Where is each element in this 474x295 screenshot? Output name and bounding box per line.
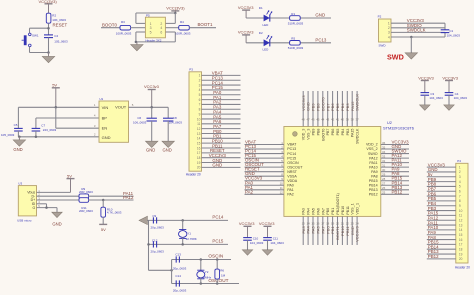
wire <box>245 189 284 191</box>
svg-text:PB13: PB13 <box>369 188 378 192</box>
svg-text:Header 20: Header 20 <box>455 265 470 269</box>
wire <box>267 240 269 250</box>
svg-text:NRST: NRST <box>287 170 298 174</box>
svg-text:3: 3 <box>388 31 390 35</box>
svg-text:PB10: PB10 <box>341 206 345 215</box>
resistor R10 <box>101 207 106 217</box>
svg-text:29: 29 <box>382 173 386 177</box>
power VCC3V3 led1 <box>238 5 254 18</box>
wire <box>149 269 172 271</box>
junction <box>47 27 50 30</box>
svg-text:PA3: PA3 <box>302 208 306 215</box>
wire <box>135 32 137 42</box>
svg-text:10: 10 <box>280 182 284 186</box>
svg-text:D2: D2 <box>259 31 263 35</box>
svg-text:PC14: PC14 <box>212 215 224 220</box>
svg-text:PB3: PB3 <box>346 129 350 136</box>
svg-text:GND: GND <box>13 147 22 152</box>
svg-text:USB micro: USB micro <box>17 219 32 223</box>
crystal Y1 32.768K <box>179 230 187 239</box>
wire <box>245 180 284 182</box>
wire <box>245 144 284 146</box>
ground crystals <box>139 216 147 224</box>
capacitor C8 <box>163 118 173 121</box>
svg-text:10: 10 <box>197 117 201 121</box>
svg-text:VCC3V3: VCC3V3 <box>418 76 434 81</box>
svg-text:PA4: PA4 <box>307 208 311 215</box>
wire <box>381 162 409 164</box>
svg-text:STM32F103C8T6: STM32F103C8T6 <box>383 125 414 130</box>
wire <box>37 203 47 205</box>
svg-text:PB12: PB12 <box>369 193 378 197</box>
wire <box>302 91 304 127</box>
wire <box>35 118 37 128</box>
svg-text:1: 1 <box>459 165 461 169</box>
svg-text:PB5: PB5 <box>336 129 340 136</box>
wire <box>427 239 456 241</box>
connector P5 header 3X2 <box>145 17 165 38</box>
svg-text:30: 30 <box>382 168 386 172</box>
svg-text:43: 43 <box>326 117 330 121</box>
wire <box>245 153 284 155</box>
junction <box>410 36 413 39</box>
wire <box>317 91 319 127</box>
wire <box>391 36 445 38</box>
svg-text:VDDA: VDDA <box>287 179 298 183</box>
junction <box>181 243 184 246</box>
connector P2 SWD <box>379 19 392 42</box>
svg-text:20p_0603: 20p_0603 <box>173 266 187 270</box>
wire <box>427 185 456 187</box>
svg-text:PB4: PB4 <box>341 129 345 136</box>
resistor R4 <box>179 25 190 30</box>
wire <box>182 220 184 230</box>
svg-text:PA11: PA11 <box>369 161 377 165</box>
ground C10 <box>242 250 253 255</box>
svg-text:Y1: Y1 <box>187 231 191 235</box>
wire <box>427 253 456 255</box>
svg-text:6: 6 <box>459 190 461 194</box>
wire <box>202 147 241 149</box>
pin1 marker U2 <box>293 132 298 137</box>
svg-text:38: 38 <box>351 117 355 121</box>
wire <box>307 216 309 245</box>
svg-text:37: 37 <box>355 117 359 121</box>
svg-text:PA15: PA15 <box>351 129 355 138</box>
svg-text:12: 12 <box>459 219 463 223</box>
wire <box>89 195 134 197</box>
svg-text:VDD_3: VDD_3 <box>302 129 306 141</box>
wire <box>202 103 241 105</box>
wire <box>424 95 426 105</box>
svg-text:11: 11 <box>280 186 283 190</box>
svg-text:9: 9 <box>459 204 461 208</box>
svg-text:100R_0603: 100R_0603 <box>175 31 191 35</box>
wire <box>427 181 456 183</box>
power 5V usb <box>67 173 75 192</box>
svg-text:PA5: PA5 <box>312 208 316 215</box>
svg-text:39: 39 <box>346 117 350 121</box>
svg-text:18: 18 <box>197 156 201 160</box>
svg-text:SWDCLK: SWDCLK <box>356 128 360 144</box>
svg-text:35: 35 <box>382 145 386 149</box>
svg-text:OSCIN: OSCIN <box>208 254 223 259</box>
svg-text:10K_0603: 10K_0603 <box>52 18 66 22</box>
svg-text:7: 7 <box>199 103 201 107</box>
wire <box>37 207 58 209</box>
wire <box>55 107 57 128</box>
wire <box>351 91 353 127</box>
wire <box>37 199 80 201</box>
wire <box>391 31 445 33</box>
wire <box>356 216 358 245</box>
svg-text:GND: GND <box>146 148 155 153</box>
svg-text:106_0603: 106_0603 <box>133 120 147 124</box>
wire <box>322 216 324 245</box>
junction <box>47 51 50 54</box>
svg-text:14: 14 <box>306 221 310 225</box>
svg-text:20p_0603: 20p_0603 <box>173 288 187 292</box>
wire <box>174 32 176 42</box>
wire <box>147 219 148 221</box>
svg-text:3: 3 <box>459 175 461 179</box>
svg-text:12: 12 <box>197 127 201 131</box>
wire <box>381 144 409 146</box>
wire <box>247 240 249 250</box>
ground regulator-in <box>13 137 26 146</box>
svg-text:PC13: PC13 <box>287 147 296 151</box>
wire <box>202 94 241 96</box>
wire <box>391 27 445 29</box>
junction <box>181 219 184 222</box>
wire <box>202 157 241 159</box>
wire <box>172 283 239 285</box>
svg-text:VCC3v3: VCC3v3 <box>144 84 160 89</box>
wire <box>102 217 104 224</box>
wire <box>174 13 176 23</box>
svg-text:C5: C5 <box>14 123 18 127</box>
svg-text:R4: R4 <box>180 20 184 24</box>
wire <box>101 27 120 29</box>
svg-text:5: 5 <box>150 30 152 34</box>
wire <box>202 84 241 86</box>
wire <box>202 123 241 125</box>
wire <box>30 27 49 29</box>
power VCC3V3 C10 <box>239 221 255 237</box>
wire <box>327 91 329 127</box>
svg-text:20: 20 <box>197 166 201 170</box>
wire <box>131 27 146 29</box>
wire <box>427 205 456 207</box>
resistor R5 <box>290 41 301 46</box>
svg-text:VBAT: VBAT <box>287 143 297 147</box>
capacitor C7 <box>32 128 41 131</box>
svg-text:SWD: SWD <box>379 44 387 48</box>
wire <box>148 220 150 270</box>
svg-text:11: 11 <box>197 122 201 126</box>
svg-text:104_0603: 104_0603 <box>169 120 183 124</box>
wire <box>381 175 409 177</box>
junction <box>150 106 153 109</box>
svg-text:VCC(3V3): VCC(3V3) <box>166 5 185 10</box>
ground C11 <box>262 250 273 255</box>
wire <box>18 136 99 138</box>
svg-text:Header 20: Header 20 <box>186 173 201 177</box>
wire <box>245 148 284 150</box>
svg-text:C14: C14 <box>175 274 181 278</box>
svg-text:46: 46 <box>311 117 315 121</box>
resistor R6 <box>215 269 220 279</box>
wire <box>427 200 456 202</box>
pin names U3 <box>27 191 36 210</box>
pin names U1 <box>102 105 127 140</box>
svg-text:36: 36 <box>382 141 386 145</box>
pin names U2 top <box>302 128 360 144</box>
wire <box>216 260 218 270</box>
wire <box>427 214 456 216</box>
svg-text:45: 45 <box>316 117 320 121</box>
wire <box>102 200 104 207</box>
wire <box>312 91 314 127</box>
wire <box>317 216 319 245</box>
wire <box>245 157 284 159</box>
wire <box>202 166 241 168</box>
wire <box>341 91 343 127</box>
svg-text:34: 34 <box>382 150 386 154</box>
power 5V regulator <box>52 82 60 107</box>
svg-text:PB2(BOOT1): PB2(BOOT1) <box>336 193 340 214</box>
wire <box>56 208 58 213</box>
svg-text:104_0603: 104_0603 <box>454 96 468 100</box>
wire <box>151 121 153 141</box>
power VCC(3V3) boot <box>166 5 185 13</box>
wire <box>167 107 169 118</box>
svg-text:26: 26 <box>382 186 386 190</box>
wire <box>427 166 456 168</box>
svg-text:104_0603: 104_0603 <box>270 241 284 245</box>
svg-text:OSCOUT: OSCOUT <box>287 165 303 169</box>
wire <box>202 128 241 130</box>
svg-text:14: 14 <box>197 137 201 141</box>
ground boot <box>131 42 144 51</box>
svg-text:17: 17 <box>321 221 325 225</box>
ground C8 <box>162 141 175 147</box>
capacitor C11 <box>263 238 272 241</box>
wire <box>381 148 409 150</box>
wire <box>327 216 329 245</box>
svg-text:LED: LED <box>263 48 270 52</box>
svg-text:9: 9 <box>199 112 201 116</box>
ground usb <box>52 212 63 217</box>
wire <box>444 33 446 37</box>
wire <box>410 37 412 53</box>
connector P3 header 20 <box>189 72 202 171</box>
connector P4 header 20 <box>456 163 468 263</box>
wire <box>200 260 202 272</box>
ground reset <box>42 53 55 63</box>
svg-text:C10: C10 <box>253 237 259 241</box>
wire <box>165 22 175 24</box>
wire <box>202 132 241 134</box>
wire <box>351 216 353 245</box>
wire <box>245 162 284 164</box>
svg-text:VSS_3: VSS_3 <box>307 129 311 140</box>
svg-text:15: 15 <box>311 221 315 225</box>
capacitor C12 <box>153 241 156 247</box>
svg-text:C2: C2 <box>54 34 58 38</box>
svg-text:PA2: PA2 <box>287 193 294 197</box>
svg-text:P3: P3 <box>189 68 193 72</box>
junction <box>45 206 48 209</box>
wire <box>246 42 331 44</box>
svg-text:8MHz: 8MHz <box>203 275 211 279</box>
svg-text:4: 4 <box>199 88 201 92</box>
svg-text:3: 3 <box>199 83 201 87</box>
svg-text:2: 2 <box>459 170 461 174</box>
wire <box>165 27 179 29</box>
capacitor C2 <box>44 35 53 38</box>
svg-text:19: 19 <box>197 161 201 165</box>
svg-text:VOUT: VOUT <box>115 105 127 110</box>
connector U3 USB micro <box>18 186 36 216</box>
svg-text:PB14: PB14 <box>369 183 378 187</box>
svg-text:PA9: PA9 <box>371 170 378 174</box>
wire <box>245 193 284 195</box>
svg-text:104_0603: 104_0603 <box>429 96 443 100</box>
junction <box>55 106 58 109</box>
svg-text:PB7: PB7 <box>326 129 330 136</box>
svg-text:16: 16 <box>316 221 320 225</box>
svg-text:15: 15 <box>459 233 463 237</box>
capacitor C10 <box>243 238 252 241</box>
svg-text:SW1: SW1 <box>32 33 39 37</box>
wire <box>48 23 50 35</box>
resistor R2 <box>46 13 51 23</box>
svg-text:44: 44 <box>321 117 325 121</box>
svg-text:1: 1 <box>199 74 201 78</box>
resistor R11 <box>79 198 89 203</box>
svg-text:R2: R2 <box>52 13 56 17</box>
svg-text:16: 16 <box>197 146 201 150</box>
svg-text:SWDCLK: SWDCLK <box>355 94 360 111</box>
junction <box>174 12 177 15</box>
svg-text:VCC3V3: VCC3V3 <box>259 221 275 226</box>
power VCC3v3 regulator-out <box>144 84 160 107</box>
wire <box>17 107 19 128</box>
svg-text:VSS_2: VSS_2 <box>366 147 377 151</box>
ground C6 <box>145 141 158 147</box>
svg-text:2: 2 <box>388 26 390 30</box>
wire <box>37 191 71 193</box>
wire <box>245 166 284 168</box>
capacitor C3 <box>421 93 430 96</box>
junction <box>216 258 219 261</box>
svg-text:104_0603: 104_0603 <box>447 34 461 38</box>
svg-text:18: 18 <box>326 221 330 225</box>
svg-text:PB15: PB15 <box>369 179 378 183</box>
wire <box>381 157 409 159</box>
svg-text:G: G <box>32 206 35 210</box>
capacitor C1 <box>441 30 450 33</box>
svg-text:42: 42 <box>331 117 335 121</box>
ground C3 <box>420 105 431 110</box>
ground swd <box>405 53 418 59</box>
power VCC3V3 led2 <box>238 30 254 43</box>
svg-text:16: 16 <box>459 238 463 242</box>
wire <box>346 216 348 245</box>
power VCC3V3 C11 <box>259 221 275 237</box>
wire <box>202 108 241 110</box>
svg-text:PA7: PA7 <box>321 208 325 215</box>
svg-text:32.768K: 32.768K <box>186 237 197 241</box>
svg-text:PB8: PB8 <box>316 129 320 136</box>
svg-text:PB9: PB9 <box>312 129 316 136</box>
wire <box>165 31 175 33</box>
svg-text:41: 41 <box>336 117 340 121</box>
wire <box>48 38 50 53</box>
wire <box>172 259 231 261</box>
svg-text:PB0: PB0 <box>326 208 330 215</box>
svg-text:VCC3V3: VCC3V3 <box>238 5 254 10</box>
svg-text:105_0603: 105_0603 <box>1 133 15 137</box>
svg-text:C8: C8 <box>173 116 177 120</box>
wire <box>427 176 456 178</box>
svg-text:13: 13 <box>459 223 463 227</box>
svg-text:PB1: PB1 <box>331 208 335 215</box>
wire <box>337 91 339 127</box>
crystal Y2 8MHz <box>197 270 205 279</box>
wire <box>245 184 284 186</box>
svg-text:4.7K_0603: 4.7K_0603 <box>107 211 122 215</box>
capacitor C5 <box>14 128 23 131</box>
capacitor C14 <box>176 280 179 286</box>
svg-text:100R_0603: 100R_0603 <box>116 31 132 35</box>
wire <box>149 243 229 245</box>
junction <box>135 41 138 44</box>
svg-text:20: 20 <box>459 257 463 261</box>
svg-text:GND: GND <box>315 13 325 18</box>
wire <box>381 193 409 195</box>
svg-text:20p_0603: 20p_0603 <box>151 250 165 254</box>
svg-text:SWDCLK: SWDCLK <box>407 27 426 32</box>
wire <box>427 171 456 173</box>
resistor R1 <box>290 16 301 21</box>
svg-text:20: 20 <box>336 221 340 225</box>
junction <box>35 136 38 139</box>
junction <box>102 199 105 202</box>
svg-text:BOOT0: BOOT0 <box>102 23 117 28</box>
wire <box>302 216 304 245</box>
pin names U2 left <box>287 143 303 197</box>
wire <box>151 107 153 118</box>
wire <box>202 74 241 76</box>
wire <box>381 153 409 155</box>
wire <box>427 243 456 245</box>
svg-text:VCC3V3: VCC3V3 <box>238 30 254 35</box>
svg-text:5V: 5V <box>52 82 57 87</box>
wire <box>381 189 409 191</box>
svg-text:VCC3V3: VCC3V3 <box>239 221 255 226</box>
svg-text:VSS_1: VSS_1 <box>351 203 355 214</box>
wire <box>89 199 134 201</box>
svg-text:27: 27 <box>382 182 386 186</box>
svg-text:12: 12 <box>280 191 284 195</box>
regulator U1 <box>99 101 129 142</box>
svg-text:48: 48 <box>302 117 306 121</box>
wire <box>136 22 146 24</box>
svg-text:SWD: SWD <box>387 52 404 61</box>
wire <box>332 216 334 245</box>
